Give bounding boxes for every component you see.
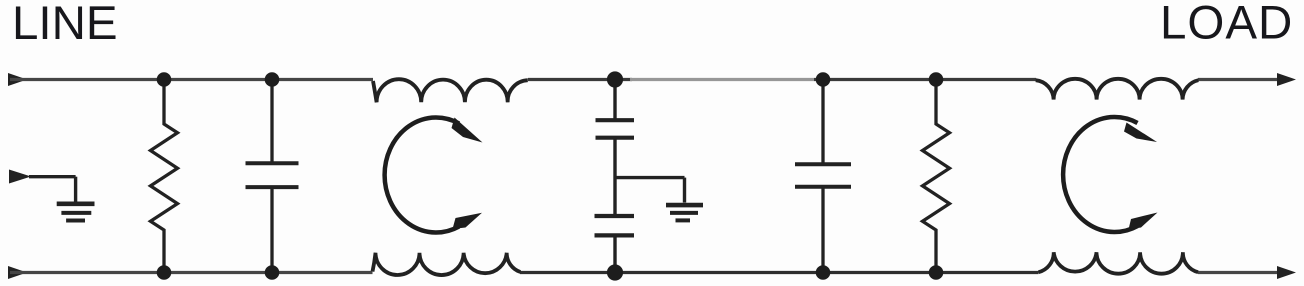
ground (line side earth) (57, 204, 95, 221)
wire bottom rail: choke L1 to choke L2 (520, 271, 1039, 274)
wire bottom rail: choke L2 to LOAD (1198, 271, 1280, 274)
capacitor C2 (Y-cap upper) (596, 80, 635, 138)
wire Y-cap midpoint to ground vertical (683, 178, 686, 203)
wire top rail: choke L1 to node A (528, 78, 632, 81)
common-mode choke L2 bottom winding (1039, 252, 1199, 274)
arrow load-out (bottom rail right) (1277, 266, 1296, 279)
arrow line-in (bottom rail left) (8, 266, 27, 279)
wire Y-cap midpoint to ground horizontal (615, 176, 685, 179)
label LOAD (1160, 0, 1293, 50)
resistor R1 (151, 80, 178, 273)
common-mode choke L1 top winding (373, 79, 528, 102)
wire earth vertical (74, 177, 77, 202)
junction Y-caps top (607, 71, 623, 87)
wire top rail: node B to choke L2 (814, 78, 1036, 81)
wire bottom rail: LINE to choke L1 (10, 271, 373, 274)
junction C1 top (265, 72, 280, 87)
junction R1 bottom (157, 265, 172, 280)
common-mode choke L2 top winding (1036, 79, 1199, 100)
choke L1 flux arrow (385, 117, 483, 232)
junction R2 top (929, 72, 944, 87)
capacitor C3 (Y-cap lower) (595, 216, 635, 273)
wire top rail: node A to node B (light segment) (630, 78, 814, 81)
common-mode choke L1 bottom winding (373, 253, 521, 275)
ground (Y-cap midpoint) (666, 205, 703, 220)
wire between Y-caps (613, 138, 616, 216)
choke L2 flux arrow (1063, 117, 1157, 232)
arrow line-in (top rail left) (8, 73, 27, 86)
junction R1 top (157, 72, 172, 87)
junction R2 bottom (929, 265, 944, 280)
wire top rail: LINE to choke L1 (10, 78, 373, 81)
arrow load-out (top rail right) (1277, 73, 1296, 86)
arrow earth (line side) (9, 170, 31, 184)
svg-text:LINE: LINE (12, 0, 118, 50)
label LINE (12, 0, 118, 50)
junction C1 bottom (265, 265, 280, 280)
svg-text:LOAD: LOAD (1160, 0, 1293, 50)
capacitor C4 (X-cap load side) (795, 78, 851, 273)
junction Y-caps bottom (607, 264, 623, 280)
wire top rail: choke L2 to LOAD (1198, 78, 1280, 81)
wire earth horizontal (29, 175, 76, 178)
junction C4 top (816, 72, 831, 87)
junction C4 bottom (816, 265, 831, 280)
capacitor C1 (X-cap line side) (246, 78, 299, 273)
resistor R2 (923, 80, 950, 273)
